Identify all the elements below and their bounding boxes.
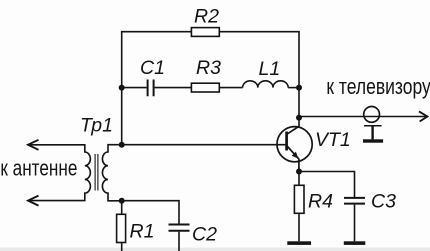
- svg-text:R3: R3: [196, 57, 221, 79]
- svg-text:R2: R2: [194, 5, 219, 27]
- svg-text:C3: C3: [371, 190, 396, 212]
- svg-text:к телевизору: к телевизору: [326, 75, 430, 99]
- svg-text:к антенне: к антенне: [0, 157, 77, 182]
- svg-text:VT1: VT1: [315, 129, 351, 151]
- svg-text:R4: R4: [308, 190, 333, 212]
- svg-text:Тр1: Тр1: [80, 114, 113, 136]
- svg-text:C1: C1: [140, 57, 165, 79]
- svg-text:R1: R1: [130, 220, 155, 242]
- svg-text:C2: C2: [192, 223, 217, 245]
- svg-text:L1: L1: [259, 58, 281, 80]
